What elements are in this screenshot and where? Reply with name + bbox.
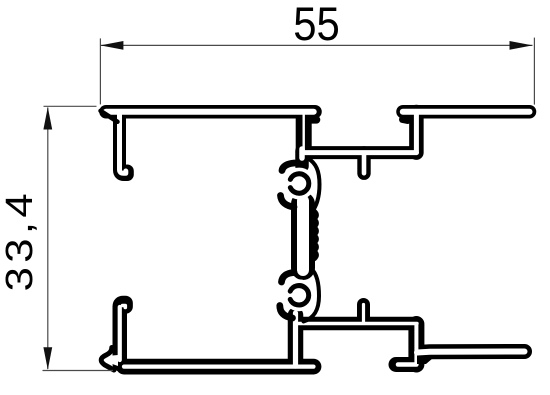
upper tab core (362, 153, 367, 173)
right step down core (414, 324, 418, 365)
serration bumps on mid web right edge (315, 211, 317, 259)
extension line left of 55 (99, 38, 101, 104)
right foot core (398, 362, 416, 367)
screw hole ring (open left) (290, 286, 308, 305)
bottom flange core (124, 365, 314, 369)
shelf (channel bottom) (303, 146, 416, 159)
web below boss core (293, 313, 298, 366)
lower tab rising from member (357, 305, 370, 324)
right step up from shelf (409, 112, 424, 153)
member core (298, 322, 417, 325)
stub core (303, 112, 305, 150)
top lip (282, 273, 295, 283)
top lip (282, 163, 295, 171)
blade (bottom right thin flange) (417, 352, 525, 353)
right top flange (403, 105, 530, 119)
arrowhead right of 55 (510, 41, 533, 50)
serrated mid web between bosses (291, 204, 315, 268)
arrowhead left of 55 (100, 41, 123, 50)
bottom lip (280, 306, 293, 319)
serrated web core (297, 201, 309, 270)
top flange left tip wedge (101, 111, 118, 122)
screw hole ring (open left) (290, 174, 308, 193)
extension line right of 55 (533, 38, 535, 105)
arrowhead top of 33,4 (43, 107, 52, 130)
arrowhead bottom of 33,4 (43, 347, 52, 370)
svg-text:55: 55 (293, 0, 340, 50)
extension line bottom of 33,4 (43, 370, 114, 372)
outer bulge arc (308, 159, 320, 212)
shelf core (303, 150, 416, 155)
left upper leg core (120, 114, 126, 173)
vertical dimension line 33,4 (47, 108, 49, 370)
left flange right end hook (311, 116, 317, 124)
bottom flange (124, 359, 314, 375)
right flange left end hook (403, 120, 408, 121)
lower tab core (362, 305, 365, 324)
upper tab hanging from shelf (357, 153, 370, 173)
right flange core (403, 109, 530, 115)
top dimension line 55 (100, 44, 532, 46)
top flange (left, horizontal) (106, 105, 315, 119)
web above upper boss (295, 151, 309, 166)
foot interior white wedge (107, 355, 119, 366)
web below lower boss (288, 315, 304, 366)
top flange core (106, 109, 314, 115)
left upper leg (120, 114, 128, 175)
mid horizontal member (298, 317, 417, 330)
web above boss core (299, 149, 305, 158)
blade core (417, 352, 525, 353)
right foot (396, 357, 416, 372)
right step core (414, 112, 419, 153)
bottom leg core (118, 307, 122, 360)
bottom-left leg top hook (123, 306, 126, 308)
extension line top of 33,4 (44, 105, 97, 107)
right step down from member (408, 324, 424, 365)
blade root notch (417, 356, 436, 365)
svg-text:33,4: 33,4 (0, 189, 41, 291)
bottom left leg (120, 303, 126, 364)
outer bulge arc (304, 269, 320, 322)
white metal annulus restore (285, 281, 313, 309)
white metal annulus restore (285, 170, 313, 198)
bottom flange left foot wedge (101, 348, 114, 371)
stub: flange down to shelf (296, 113, 312, 150)
bottom lip (281, 196, 295, 208)
